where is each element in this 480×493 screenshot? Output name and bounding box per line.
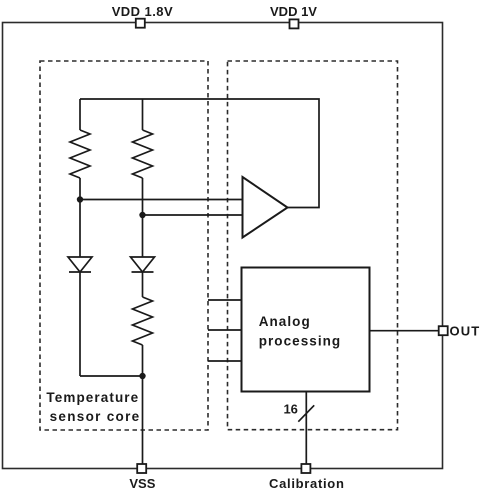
svg-text:Calibration: Calibration	[269, 476, 345, 491]
svg-text:VDD 1V: VDD 1V	[270, 4, 317, 19]
svg-text:16: 16	[283, 402, 297, 417]
svg-text:VSS: VSS	[129, 476, 155, 491]
svg-text:Analog: Analog	[259, 314, 311, 329]
svg-text:OUT: OUT	[450, 324, 480, 339]
svg-text:sensor core: sensor core	[50, 409, 141, 424]
svg-text:VDD 1.8V: VDD 1.8V	[112, 4, 173, 19]
svg-text:Temperature: Temperature	[46, 390, 139, 405]
svg-text:processing: processing	[259, 334, 342, 349]
